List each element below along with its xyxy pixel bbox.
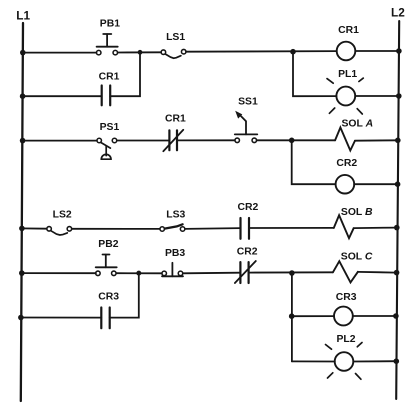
wire branch: contact CR3 to rung4 bbox=[110, 273, 139, 318]
svg-text:PL2: PL2 bbox=[336, 334, 355, 345]
coil CR1 bbox=[337, 42, 356, 61]
junction dot PL2-rail L2 bbox=[394, 358, 400, 364]
pushbutton PB1 (NO) bbox=[96, 34, 117, 55]
wire branch CR2 coil: rung2 down bbox=[292, 140, 336, 184]
wire rung3: LS2 to LS3 bbox=[72, 228, 160, 230]
wire rung2: PS1 to contact CR1 bbox=[117, 140, 169, 142]
junction dot rung1-rail L2 bbox=[396, 48, 402, 54]
svg-text:PB3: PB3 bbox=[165, 248, 185, 259]
svg-text:PB2: PB2 bbox=[98, 239, 118, 250]
pushbutton PB3 (NC) bbox=[162, 263, 183, 277]
junction dot rail-rung4 bbox=[19, 270, 25, 276]
wire rung3: LS3 to contact CR2 bbox=[185, 227, 241, 230]
junction dot PL1-rail L2 bbox=[396, 93, 402, 99]
svg-text:LS2: LS2 bbox=[53, 210, 72, 221]
wire branch: PL2 to L2 bbox=[353, 360, 396, 362]
junction dot CR3 coil-rail L2 bbox=[393, 313, 399, 319]
svg-text:CR1: CR1 bbox=[338, 25, 359, 36]
contact CR3 (NO) bbox=[101, 308, 109, 329]
wire branch: contact CR1 to rung1 bbox=[110, 52, 140, 96]
pushbutton PB2 (NO) bbox=[96, 255, 117, 276]
svg-text:CR3: CR3 bbox=[336, 292, 357, 303]
wire rung1: coil CR1 to L2 bbox=[355, 50, 399, 52]
junction dot rail-branch CR3 contact bbox=[18, 315, 24, 321]
svg-text:PL1: PL1 bbox=[338, 69, 357, 80]
svg-text:SS1: SS1 bbox=[238, 97, 258, 108]
svg-text:LS3: LS3 bbox=[166, 209, 185, 220]
wire branch: L1 to contact CR3 bbox=[21, 317, 101, 319]
junction dot rung2-rail L2 bbox=[395, 138, 401, 144]
wire rung2: SS1 to SOL A bbox=[257, 139, 335, 141]
svg-text:CR2: CR2 bbox=[336, 158, 357, 169]
svg-text:PS1: PS1 bbox=[100, 122, 120, 133]
svg-text:CR1: CR1 bbox=[99, 71, 120, 82]
coil CR3 bbox=[334, 307, 353, 326]
wire rung1: PB1 to LS1 bbox=[118, 51, 161, 53]
wire rung4: SOL C to L2 bbox=[358, 271, 397, 274]
junction dot rail-branch CR1 contact bbox=[20, 93, 26, 99]
junction dot rung4-branch coils bbox=[289, 270, 295, 276]
svg-text:SOL A: SOL A bbox=[342, 118, 374, 129]
selector switch SS1 bbox=[235, 111, 257, 143]
contact CR2 (NO) bbox=[241, 218, 250, 239]
limit switch LS2 (NO) bbox=[47, 227, 72, 235]
wire rung2: L1 to PS1 bbox=[23, 140, 97, 142]
wire rung4: L1 to PB2 bbox=[22, 272, 96, 274]
svg-text:SOL C: SOL C bbox=[341, 252, 373, 263]
junction dot rung1-branch PL1 bbox=[290, 49, 296, 55]
contact CR1 (NC) bbox=[163, 130, 183, 151]
contact CR1 (NO) bbox=[102, 86, 111, 106]
wire rung4: contact CR2 to SOL C bbox=[249, 271, 333, 273]
junction dot rail-rung2 bbox=[20, 138, 26, 144]
svg-text:CR1: CR1 bbox=[165, 113, 186, 124]
wire rung1: L1 to PB1 bbox=[23, 52, 97, 54]
left power rail L1 bbox=[21, 23, 23, 401]
wire rung3: SOL B to L2 bbox=[354, 227, 397, 230]
wire branch: coil CR3 to L2 bbox=[353, 315, 396, 317]
limit switch LS1 (NO) bbox=[161, 49, 186, 58]
junction dot CR2 coil-rail L2 bbox=[395, 181, 401, 187]
wire rung3: contact CR2 to SOL B bbox=[249, 227, 334, 229]
junction dot rung1-branch CR1 contact bbox=[138, 50, 143, 55]
svg-text:L1: L1 bbox=[16, 8, 30, 22]
junction dot branch CR3 coil bbox=[289, 313, 295, 319]
wire rung1: LS1 to coil CR1 bbox=[186, 50, 337, 53]
solenoid SOL A bbox=[335, 128, 355, 151]
wire branch: to coil CR3 bbox=[292, 315, 334, 317]
solenoid SOL B bbox=[334, 215, 354, 238]
svg-text:L2: L2 bbox=[391, 6, 405, 20]
svg-text:CR2: CR2 bbox=[237, 247, 258, 258]
junction dot rung2-branch CR2 coil bbox=[289, 138, 295, 144]
junction dot rung4-rail L2 bbox=[394, 270, 400, 276]
wire rung2: SOL A to L2 bbox=[355, 139, 398, 141]
limit switch LS3 (held closed) bbox=[160, 224, 185, 231]
wire branch PL1 to L2 bbox=[355, 95, 399, 97]
wire rung2: contact CR1 to SS1 bbox=[177, 139, 235, 141]
pilot light PL1 bbox=[327, 78, 363, 114]
solenoid SOL C bbox=[333, 261, 358, 282]
right power rail L2 bbox=[396, 21, 399, 399]
pilot light PL2 bbox=[326, 343, 363, 380]
junction dot rail-rung3 bbox=[19, 226, 25, 232]
svg-text:CR3: CR3 bbox=[98, 291, 119, 302]
wire branch CR2 coil to L2 bbox=[354, 183, 397, 185]
svg-text:LS1: LS1 bbox=[166, 32, 185, 43]
wire rung4: PB2 to PB3 bbox=[117, 272, 162, 274]
junction dot rail-rung1 bbox=[20, 50, 26, 56]
svg-text:PB1: PB1 bbox=[100, 18, 120, 29]
svg-text:SOL B: SOL B bbox=[341, 207, 373, 218]
wire branch: L1 to contact CR1 bbox=[23, 95, 102, 97]
coil CR2 bbox=[336, 175, 355, 194]
wire branch: rung4 down to coil CR3 and PL2 bbox=[291, 273, 293, 361]
contact CR2 (NC) bbox=[235, 261, 256, 283]
pressure switch PS1 bbox=[97, 138, 117, 159]
wire branch PL1: rung1 down bbox=[293, 52, 336, 96]
wire rung3: L1 to LS2 bbox=[22, 227, 47, 229]
svg-text:CR2: CR2 bbox=[238, 202, 259, 213]
wire rung4: PB3 to contact CR2 bbox=[183, 272, 241, 275]
wire branch: to PL2 bbox=[292, 360, 335, 362]
junction dot rung4-branch CR3 contact bbox=[136, 271, 141, 276]
junction dot rung3-rail L2 bbox=[394, 225, 400, 231]
